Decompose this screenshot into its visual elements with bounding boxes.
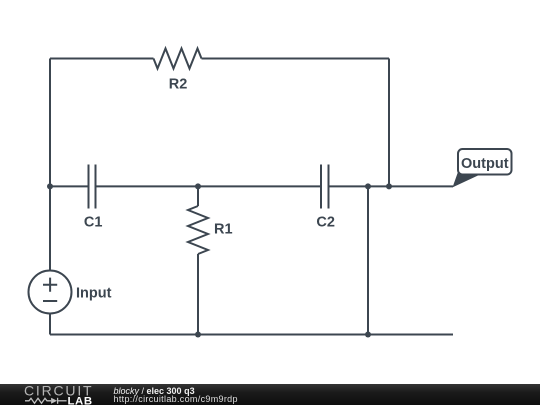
wire: C2 right plate to output terminal — [329, 185, 454, 187]
wire: left node to C1 left plate — [50, 185, 89, 187]
svg-text:R2: R2 — [169, 77, 188, 93]
node: R1 bottom on ground rail — [195, 332, 201, 338]
resistor R1 — [188, 206, 208, 254]
wire: node A down to R1 top — [197, 186, 199, 206]
node: left input node — [47, 183, 53, 189]
svg-text:LAB: LAB — [68, 396, 93, 405]
svg-text:Output: Output — [461, 156, 509, 172]
wire: C1 right plate to C2 left plate through node A — [96, 185, 322, 187]
svg-text:http://circuitlab.com/c9m9rdp: http://circuitlab.com/c9m9rdp — [114, 394, 238, 404]
output flag tail — [453, 171, 483, 188]
svg-text:Input: Input — [76, 285, 112, 301]
svg-text:R1: R1 — [214, 222, 233, 238]
node: output return on ground rail — [365, 332, 371, 338]
node: C2/output-down junction — [365, 183, 371, 189]
footer bar — [0, 384, 540, 405]
wire: bottom ground rail — [50, 334, 453, 336]
wire: source bottom to ground rail — [49, 314, 51, 335]
output flag box — [458, 149, 512, 175]
wire: left vertical from top-left corner to source top — [49, 59, 51, 271]
svg-text:C1: C1 — [84, 215, 103, 231]
capacitor C2 — [321, 165, 329, 209]
wire: R1 bottom to ground rail — [197, 254, 199, 335]
wire: top rail left of R2 — [50, 58, 154, 60]
voltage source V1 Input — [29, 271, 72, 314]
wire: right vertical from top rail down to output node — [388, 59, 390, 187]
node A: C1/R1 junction — [195, 183, 201, 189]
wire: output node down to ground rail — [367, 186, 369, 334]
wire: top rail right of R2 — [202, 58, 390, 60]
CircuitLab logo waveform glyph — [25, 398, 67, 404]
capacitor C1 — [89, 165, 96, 209]
node: output/feedback junction — [386, 183, 392, 189]
svg-text:C2: C2 — [316, 215, 335, 231]
resistor R2 — [154, 49, 202, 69]
